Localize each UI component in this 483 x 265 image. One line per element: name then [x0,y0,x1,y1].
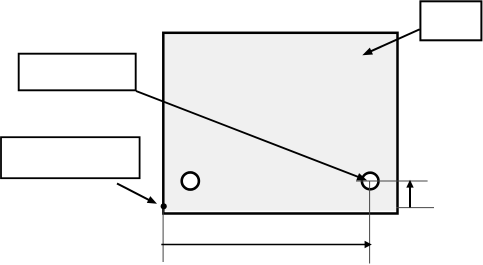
callout box mid-left [1,137,140,178]
hole circle right (target) [362,173,379,190]
callout box top-right [420,1,481,40]
vertical dimension arrow [406,180,413,208]
callout box top-left [19,54,136,91]
extension line horizontal at plate bottom [397,207,435,209]
horizontal dimension arrow [161,241,371,248]
corner reference dot [161,203,167,209]
extension line horizontal at hole center [356,180,428,182]
leader arrow from mid-left box to corner dot [117,184,157,204]
gray plate body [163,33,397,214]
hole circle left [182,172,199,189]
leader line from top-left box to right hole [136,91,367,180]
extension line vertical at plate left corner [162,207,164,262]
extension line vertical through right hole [369,181,371,264]
leader arrow from top-right box into plate [362,29,419,55]
